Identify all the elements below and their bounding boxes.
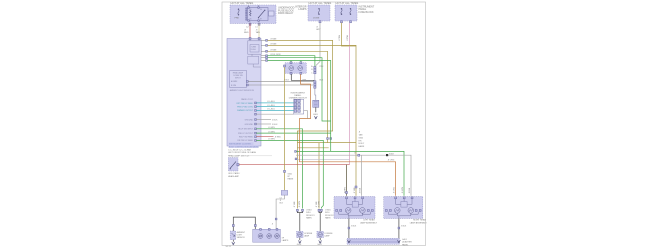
svg-text:LAMPS: LAMPS xyxy=(282,239,289,242)
internal wires top pins to flasher xyxy=(249,39,251,41)
wire green B1 : block D to connector F xyxy=(268,56,315,67)
wire crimson from headlamp switch to pink junction xyxy=(239,164,349,166)
svg-text:INPUT: INPUT xyxy=(235,77,242,79)
fuse F3 inside box C xyxy=(341,8,342,9)
fuse F4 inside box C xyxy=(350,8,351,9)
svg-text:DIMMER OUTPUT: DIMMER OUTPUT xyxy=(237,110,254,112)
svg-text:.8 GRN: .8 GRN xyxy=(318,201,320,208)
fuse block box A (underhood fuse block) xyxy=(230,5,276,24)
tail lamp box L xyxy=(334,197,375,219)
second sub-box under flasher xyxy=(248,56,259,64)
pins top of box L xyxy=(346,197,348,199)
svg-text:.8 BRN: .8 BRN xyxy=(345,187,347,194)
bulb E1 xyxy=(289,66,294,71)
wire tan from fuse C left, jogs right xyxy=(342,23,357,46)
pins under box C xyxy=(341,21,343,23)
svg-text:LAMP ASSEMBLY: LAMP ASSEMBLY xyxy=(360,221,378,224)
svg-text:HARN: HARN xyxy=(306,216,312,219)
pin on dark wire xyxy=(346,192,348,194)
svg-text:.8 TAN: .8 TAN xyxy=(270,43,277,46)
relay stub wires to box edge xyxy=(248,5,250,7)
pins top of box M xyxy=(395,197,397,199)
svg-text:A PARK: A PARK xyxy=(231,80,238,83)
fuse F1 inside box A xyxy=(238,9,239,10)
wire tan A11 : block D to x332 then down to lamp1 feed xyxy=(268,40,333,208)
svg-text:RED: RED xyxy=(244,32,249,34)
pins on switch sub-box xyxy=(246,81,248,83)
wire black from bulb E1 down and right xyxy=(291,74,314,82)
license lamp 1 connector pins xyxy=(296,209,298,211)
svg-text:BODY CONTROL MODULE (BCM): BODY CONTROL MODULE (BCM) xyxy=(229,146,259,148)
svg-text:HEADLAMP SWITCH: HEADLAMP SWITCH xyxy=(228,155,250,158)
connector F stack 1 xyxy=(314,66,316,68)
svg-text:G401: G401 xyxy=(297,244,302,246)
ground arrows in strip xyxy=(347,240,350,242)
license lamp 1 ground arrow xyxy=(299,238,301,241)
headlamp switch box H xyxy=(228,158,238,171)
svg-text:LAMPS: LAMPS xyxy=(298,8,307,11)
faint rule line right of title xyxy=(248,155,272,157)
license lamp 1 box xyxy=(297,231,304,237)
gray wire 4 to dimmer switch xyxy=(256,113,293,115)
dimmer switch body xyxy=(294,99,304,114)
svg-text:AMBIENT LIGHT SENSOR IN: AMBIENT LIGHT SENSOR IN xyxy=(230,89,255,92)
relay output small box xyxy=(269,11,275,16)
wire from photocell up and over to box J xyxy=(233,217,255,231)
fuse block box B xyxy=(308,5,330,21)
pin under box B xyxy=(319,21,321,23)
internal wire second box to right xyxy=(253,64,260,67)
photocell box I xyxy=(230,231,236,240)
svg-text:.8 GRN: .8 GRN xyxy=(299,201,301,208)
footer label bar 2 of block D xyxy=(229,145,259,148)
light gray wire y159.3 xyxy=(296,158,350,160)
svg-text:85: 85 xyxy=(250,9,252,11)
svg-text:.8 PNK: .8 PNK xyxy=(347,34,349,41)
wire green C4 long : to license lamp 2 xyxy=(256,140,323,208)
svg-text:G401: G401 xyxy=(317,244,322,246)
svg-text:5 BLK: 5 BLK xyxy=(272,124,278,126)
svg-text:.8: .8 xyxy=(272,224,274,226)
license lamp 1 wire down xyxy=(299,214,301,232)
svg-text:.8 GRN: .8 GRN xyxy=(402,187,404,194)
wire green B3 : block D down trunk 330.7 xyxy=(268,61,331,152)
svg-text:.8 BLK: .8 BLK xyxy=(351,226,357,228)
tan wire t5 down left side xyxy=(284,67,286,190)
svg-text:LEFT FRONT SIDE OF DASH: LEFT FRONT SIDE OF DASH xyxy=(228,151,256,154)
resistor box right xyxy=(313,100,319,107)
bulb L2 xyxy=(360,208,366,214)
svg-text:PRK LP OUTPUT: PRK LP OUTPUT xyxy=(238,133,254,135)
svg-text:.8 TAN: .8 TAN xyxy=(293,201,296,207)
svg-text:GRY: GRY xyxy=(316,29,321,31)
switch sub-box inside block D xyxy=(230,71,247,88)
t5 continues gray below connector xyxy=(276,195,284,229)
relay K1 sub-box inside box A xyxy=(248,8,269,21)
pin at left end of violet xyxy=(295,158,297,160)
internal wire from flasher down xyxy=(251,54,253,56)
wire from stack2 down to resistor xyxy=(314,88,317,100)
svg-text:.8 TAN: .8 TAN xyxy=(315,201,318,207)
pins for cyan wires block D xyxy=(255,102,257,104)
svg-text:PARK LP RLY: PARK LP RLY xyxy=(241,98,254,101)
front lamp box E xyxy=(285,63,306,74)
cyan wire 3 to dimmer switch xyxy=(256,109,293,111)
bulb M2 xyxy=(408,208,414,214)
pins under box A xyxy=(249,23,251,25)
svg-text:PANEL: PANEL xyxy=(402,243,409,246)
wire tan from relay to cluster xyxy=(258,24,260,39)
gray wire S303 run xyxy=(296,155,411,196)
license lamp 2 wire down xyxy=(319,214,321,232)
svg-text:HDLP SW INPUT: HDLP SW INPUT xyxy=(238,129,254,131)
wire gray from sub-box to connector stack2 row2 xyxy=(248,84,313,86)
dimmer switch pin grid xyxy=(294,100,297,103)
splice marker S303 xyxy=(386,154,388,156)
pin on gray wire xyxy=(358,154,360,156)
switch contact inside H xyxy=(230,162,236,169)
stub wire gray xyxy=(256,119,271,121)
green horizontal y151.4 to right tail box xyxy=(296,151,405,195)
bulb E2 xyxy=(298,66,303,71)
svg-text:HOT AT ALL TIMES: HOT AT ALL TIMES xyxy=(336,1,359,5)
stub wire crimson xyxy=(256,136,273,138)
ground wire from left tail box xyxy=(348,219,350,239)
cyan wire 1 to dimmer switch xyxy=(256,102,293,104)
stub wire gray2 xyxy=(256,123,271,125)
wire dark brown junction to left tail box xyxy=(346,165,348,196)
wire tan A13 : block D to x327.5 down, S302 tee xyxy=(268,51,328,142)
bulb J3 xyxy=(275,234,280,239)
svg-text:.8 GRN: .8 GRN xyxy=(268,131,275,133)
pin on tan trunk xyxy=(355,186,357,188)
ground wire from right tail box xyxy=(398,219,400,239)
wire green B2 : block D joins trunk at y121 xyxy=(268,58,331,121)
fuse block box C xyxy=(335,5,357,21)
svg-text:PRK LP IND CTRL: PRK LP IND CTRL xyxy=(237,107,253,109)
svg-text:DOME: DOME xyxy=(313,18,320,20)
wire green C2 long : to license lamp 1 xyxy=(256,129,302,209)
page frame border xyxy=(222,2,426,246)
gray wire dimmer output joins orange xyxy=(304,111,308,119)
three-bulb box J xyxy=(253,229,281,242)
svg-text:FLSH: FLSH xyxy=(251,49,256,51)
connector O on t5 xyxy=(281,190,287,195)
license lamp 2 bulb xyxy=(318,232,322,236)
wire gray from sub-box to connector stack2 row1 xyxy=(248,80,313,82)
svg-text:FRT PRK LP FEED: FRT PRK LP FEED xyxy=(237,103,254,105)
license lamp 1 bracket xyxy=(297,211,302,213)
cyan wire 2 to dimmer switch xyxy=(256,106,293,108)
internal wires box M xyxy=(396,199,401,205)
svg-text:QUARTER: QUARTER xyxy=(402,241,412,244)
body control module block D xyxy=(227,39,261,147)
svg-text:.8 TAN: .8 TAN xyxy=(270,38,277,41)
wire below resistor with ground xyxy=(315,107,317,112)
pin on t5 xyxy=(284,170,286,172)
bulkhead pin on green vertical xyxy=(330,138,332,140)
connector stubs up from box E to green wire xyxy=(290,61,292,62)
inner rect box M xyxy=(401,202,407,208)
svg-text:5 BLK: 5 BLK xyxy=(272,119,278,121)
svg-text:.8 BLK: .8 BLK xyxy=(401,226,407,228)
relay K1 coil xyxy=(250,10,252,16)
svg-text:LAMP: LAMP xyxy=(324,234,330,237)
svg-text:.8 ORG: .8 ORG xyxy=(394,187,396,194)
pin on right of switch H xyxy=(237,164,239,166)
photocell arrow symbol xyxy=(232,233,235,236)
svg-text:TAN: TAN xyxy=(256,31,261,34)
pins right edge of block D (top group) xyxy=(261,39,266,41)
svg-text:.8 GRN: .8 GRN xyxy=(268,127,275,129)
pin on t5 lower xyxy=(275,218,277,220)
svg-text:GROUND: GROUND xyxy=(245,119,254,121)
svg-text:GROUND: GROUND xyxy=(245,124,254,126)
svg-text:.8: .8 xyxy=(354,153,356,155)
svg-text:C1 = BLUE C2 = CLEAR: C1 = BLUE C2 = CLEAR xyxy=(228,149,251,152)
relay pin column on box A xyxy=(246,8,247,9)
side pins box M xyxy=(385,210,387,212)
svg-text:HARN: HARN xyxy=(359,145,365,148)
tan tee down to license lamp 2 xyxy=(318,143,320,209)
svg-text:B DIM: B DIM xyxy=(231,85,236,87)
wire green C3 long : tee into trunk at 330.7 xyxy=(256,132,330,134)
bulkhead pin on tan vertical xyxy=(327,138,329,140)
license lamp 2 ground arrow xyxy=(319,238,321,241)
fuse F2 inside box B xyxy=(318,8,319,9)
inner rect box L xyxy=(352,202,358,208)
license lamp 2 bracket xyxy=(319,211,321,213)
svg-text:.8 TAN: .8 TAN xyxy=(353,187,356,193)
pin at left end of green y151.4 xyxy=(295,151,297,153)
svg-text:.8 BLK: .8 BLK xyxy=(360,187,362,193)
pins on top of block D xyxy=(249,38,251,40)
svg-text:LEFT REAR: LEFT REAR xyxy=(363,219,375,222)
svg-text:HARN: HARN xyxy=(288,178,294,181)
svg-text:.8 L-BLU: .8 L-BLU xyxy=(267,101,275,103)
tail lamp box M xyxy=(384,197,423,219)
bulb J2 xyxy=(267,234,272,239)
license lamp 2 box xyxy=(317,231,324,237)
wire crimson from relay to cluster xyxy=(249,24,251,39)
connector F stack 2 xyxy=(314,81,316,83)
tan horizontal S302 run y142.6 xyxy=(297,142,356,144)
svg-text:.8 BLK: .8 BLK xyxy=(409,187,411,193)
wire gray from fuse B down xyxy=(316,23,320,66)
ground under photocell xyxy=(232,240,234,242)
svg-text:.8 GRN: .8 GRN xyxy=(268,139,275,141)
ground strip N xyxy=(347,238,400,244)
bulb J1 xyxy=(258,234,263,239)
wire orange from bulb E2 down to right tail feed xyxy=(300,74,396,196)
svg-text:SENSOR: SENSOR xyxy=(237,237,246,239)
wire pink from fuse C right down to junction xyxy=(349,23,351,165)
tan horizontal y147.8 xyxy=(297,147,328,149)
relay top pins xyxy=(248,7,250,9)
svg-text:FUSE BLOCK: FUSE BLOCK xyxy=(359,11,375,14)
bulb M1 xyxy=(395,208,401,214)
link wire stack1 to stack2 xyxy=(314,74,316,81)
svg-text:PRK: PRK xyxy=(235,18,240,20)
svg-text:RR PRK LP FEED: RR PRK LP FEED xyxy=(237,140,253,142)
svg-text:.8 ORG: .8 ORG xyxy=(388,160,395,162)
svg-text:LAMP: LAMP xyxy=(304,234,310,237)
flasher sub-box inside block D xyxy=(248,41,261,54)
svg-text:.8 L-BLU: .8 L-BLU xyxy=(267,109,275,111)
svg-text:HOT AT ALL TIMES: HOT AT ALL TIMES xyxy=(309,1,332,5)
svg-text:RIGHT REAR: RIGHT REAR xyxy=(413,219,426,222)
svg-text:.8 TAN: .8 TAN xyxy=(270,49,277,52)
pins on box E xyxy=(290,62,292,64)
svg-text:TAN: TAN xyxy=(359,134,363,137)
svg-text:OFF / PARK /: OFF / PARK / xyxy=(228,172,241,175)
license lamp 2 connector pins xyxy=(318,209,320,211)
bulb L1 xyxy=(345,208,351,214)
footer label bar 1 of block D xyxy=(229,142,254,145)
svg-text:30: 30 xyxy=(260,9,262,11)
pins lower right edge block D xyxy=(255,119,257,121)
svg-text:LAMP ASSEMBLY: LAMP ASSEMBLY xyxy=(410,221,428,224)
svg-text:86: 86 xyxy=(250,19,252,21)
svg-text:.8 TAN: .8 TAN xyxy=(338,35,341,41)
svg-text:HEADLAMP: HEADLAMP xyxy=(228,175,240,178)
svg-text:.8 L-BLU: .8 L-BLU xyxy=(267,105,275,107)
relay K1 switch contact xyxy=(259,11,265,18)
svg-text:.8 DK GRN: .8 DK GRN xyxy=(270,54,281,56)
svg-text:.8 RED: .8 RED xyxy=(275,137,282,139)
svg-text:HARN: HARN xyxy=(325,216,331,219)
svg-text:PARK RELAY: PARK RELAY xyxy=(278,12,294,15)
svg-text:HOT AT ALL TIMES: HOT AT ALL TIMES xyxy=(231,1,254,5)
side pins box L xyxy=(336,210,338,212)
svg-text:HDLP SW FEED: HDLP SW FEED xyxy=(239,137,254,139)
gray tee down to left tail box xyxy=(361,155,363,196)
internal wires box L xyxy=(347,199,353,205)
tan wire t5 pin top xyxy=(284,65,286,67)
svg-text:BODY: BODY xyxy=(359,143,365,145)
license lamp 1 bulb xyxy=(298,232,302,236)
wire tan A12 : block D to x356 down into left tail box xyxy=(268,45,357,195)
svg-text:87: 87 xyxy=(260,19,262,21)
